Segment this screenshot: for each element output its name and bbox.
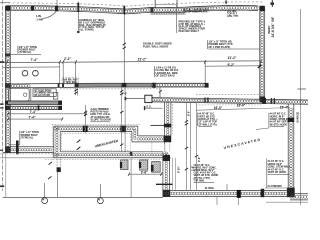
dashed line under bearing wall [60, 88, 160, 90]
vertical line x131 [130, 158, 132, 198]
ledge line below top wall [150, 13, 185, 15]
stair stringer lines [173, 158, 176, 191]
garage door jamb line x205 [204, 62, 206, 83]
unexcavated room top wall [52, 124, 141, 131]
interior wall lower vertical x163 [163, 152, 171, 197]
stair gyp note N3 [179, 19, 206, 33]
door label LIN [36, 14, 44, 21]
svg-text:VERT. W/ HOOK: VERT. W/ HOOK [268, 171, 287, 174]
svg-text:(TYPICAL): (TYPICAL) [21, 136, 34, 140]
column bubble 2 [98, 184, 104, 204]
line into wall y125 [150, 124, 164, 126]
dashed wall continuation x165 [165, 142, 170, 152]
svg-text:W/ STD. HOOK: W/ STD. HOOK [270, 123, 287, 126]
dashed footing lines bottom-left [0, 154, 57, 158]
svg-text:PLBG. WALL ABOVE: PLBG. WALL ABOVE [143, 44, 169, 48]
dashed footing line beside stair wall [172, 104, 174, 134]
water heater note N2 [183, 7, 209, 13]
svg-text:16'-0": 16'-0" [214, 106, 223, 110]
svg-text:8'-10": 8'-10" [177, 165, 181, 173]
wall connector x160 [159, 87, 161, 98]
svg-text:21'-2": 21'-2" [138, 58, 147, 62]
beam box N13 [62, 78, 78, 84]
svg-text:24'-8 3/4" VIF: 24'-8 3/4" VIF [271, 17, 275, 38]
interior wall upper vertical x165 [164, 102, 172, 143]
svg-text:M. BRG.: M. BRG. [205, 187, 215, 190]
tick marks inside room [77, 140, 81, 150]
handrail note N1 [79, 18, 106, 32]
svg-text:FLATWORK: FLATWORK [268, 184, 283, 188]
rotated dim texts center right [177, 110, 202, 173]
svg-text:PER CRC R302.7: PER CRC R302.7 [179, 29, 200, 33]
svg-text:ON 18" HIGH PLATF.: ON 18" HIGH PLATF. [183, 10, 208, 14]
svg-text:21'-2": 21'-2" [228, 56, 237, 60]
dimension line A [3, 60, 262, 63]
bath wall stub x75 [74, 87, 78, 96]
svg-text:7'-4": 7'-4" [29, 110, 36, 114]
svg-text:1-HR: 1-HR [36, 17, 44, 21]
top dimension ticks [57, 0, 274, 8]
svg-text:15'-4": 15'-4" [280, 106, 289, 110]
svg-text:7'-4": 7'-4" [30, 58, 37, 62]
room step wall horizontal [132, 136, 171, 142]
svg-text:ALL STAIRS: ALL STAIRS [79, 28, 94, 32]
svg-text:9'-8": 9'-8" [197, 156, 201, 162]
svg-text:3" MIN. BRG.: 3" MIN. BRG. [63, 82, 78, 84]
dim vertical x85 [84, 105, 87, 133]
foundation notch wall left [3, 141, 54, 155]
pier square center [145, 95, 152, 102]
tub [9, 88, 30, 101]
garage trimmer note N5 [91, 108, 112, 122]
wall posts on top wall [5, 6, 264, 13]
floor drain circles [22, 70, 38, 76]
stair dashed landing box [152, 142, 165, 156]
titen bolt note N4 [10, 45, 41, 55]
label 2x6 top plate [227, 10, 239, 18]
dimension line D [7, 115, 63, 120]
bottom wall main [163, 190, 290, 198]
dim line piers 3-6 [128, 171, 163, 176]
dim vertical x176 [176, 5, 178, 33]
exterior wall left [5, 6, 10, 152]
porch slab line bottom [3, 196, 163, 198]
bottom wall post [261, 189, 265, 197]
double joist note N15 [143, 42, 172, 49]
svg-text:9'-2": 9'-2" [227, 63, 234, 67]
svg-text:3'-6": 3'-6" [141, 171, 148, 175]
door D1 swing arc [43, 11, 56, 18]
interior wall horizontal y98 [152, 97, 309, 104]
garage wall stub upper [8, 101, 62, 105]
svg-text:E.G.: E.G. [147, 104, 152, 108]
stem wall note N10 [194, 164, 239, 205]
stem wall note N11 [265, 158, 291, 188]
dim verticals x186 x190 x196 [185, 102, 198, 190]
svg-text:(TYPICAL): (TYPICAL) [19, 50, 32, 54]
beam line to pier [125, 97, 145, 100]
bath wall edge x30 [30, 87, 32, 101]
dimension texts on line A [30, 56, 236, 62]
svg-text:2'-0": 2'-0" [122, 92, 128, 96]
svg-text:VERIFY: VERIFY [268, 25, 271, 34]
svg-text:8'-0": 8'-0" [186, 110, 190, 116]
dashed line right wing [196, 94, 262, 96]
pier strip left [48, 159, 61, 198]
svg-text:W/ 2x6 STUDS: W/ 2x6 STUDS [34, 95, 50, 97]
LVL beam note N16 [154, 66, 178, 78]
rebar note N8 [198, 113, 219, 127]
svg-text:OF WALL (TYP.): OF WALL (TYP.) [198, 123, 217, 126]
garage wall stub lower [8, 105, 63, 110]
titen bolt note N6 [9, 130, 40, 145]
leader tick across stair wall [156, 183, 173, 185]
tick on stair wall line [159, 90, 162, 92]
dimension line B [3, 63, 262, 68]
pier footings row [120, 160, 160, 172]
left sheet border line [0, 0, 4, 191]
svg-text:ABV. TYP.: ABV. TYP. [227, 15, 239, 18]
beam lines x121 x125 [120, 87, 125, 152]
exterior wall right upper [259, 6, 264, 102]
room step wall vertical [132, 126, 138, 142]
right sheet border line [298, 9, 307, 205]
exterior wall top [6, 5, 263, 13]
svg-text:2'-2": 2'-2" [64, 57, 71, 61]
svg-text:16'-0": 16'-0" [237, 103, 246, 107]
room inner face line [61, 133, 131, 150]
left wall face lower [5, 153, 7, 198]
bottom wall right [266, 194, 309, 203]
posts on room top wall [83, 126, 126, 133]
column bubble 1 [42, 183, 48, 204]
dimension line C [7, 110, 86, 115]
svg-text:6x6 BM. ABV.: 6x6 BM. ABV. [63, 79, 78, 82]
dim vertical x78 [77, 2, 80, 34]
titen bolt note N7 [208, 39, 260, 49]
unexcavated room bottom wall [45, 152, 171, 160]
dim line 16-0 right [196, 103, 290, 110]
plumbing wall box N12 [33, 89, 56, 97]
unexcavated room left wall [52, 124, 60, 160]
svg-text:7'-4": 7'-4" [28, 115, 35, 119]
svg-text:SLOPE TO DOOR: SLOPE TO DOOR [91, 119, 112, 122]
EG label mid [144, 104, 163, 110]
vertical dimension text right [268, 17, 275, 38]
svg-text:GARAGE: GARAGE [295, 112, 299, 123]
interior wall lines x59-75 [60, 62, 76, 83]
bearing wall mid [6, 83, 209, 88]
rebar note N9 [256, 113, 293, 130]
right wall lower [287, 104, 295, 197]
roof eave dashed line [0, 2, 264, 6]
beam line x124 [123, 6, 126, 84]
niche rect [53, 93, 57, 100]
svg-text:OF 4 PER PLATE): OF 4 PER PLATE) [209, 45, 231, 49]
svg-text:OF JOIST BAYS: OF JOIST BAYS [156, 73, 175, 77]
svg-text:TYP. MIN.: TYP. MIN. [194, 179, 205, 182]
